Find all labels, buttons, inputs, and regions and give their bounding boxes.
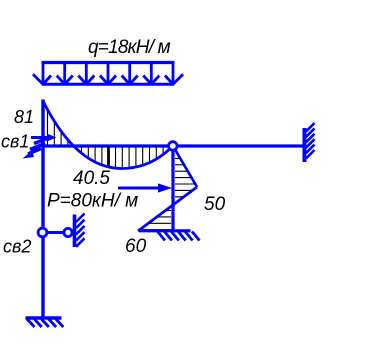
sv2 link bar: [46, 231, 64, 234]
column moment hatching (bottom triangle): [141, 211, 172, 230]
svg-text:81: 81: [14, 107, 34, 127]
svg-text:40.5: 40.5: [73, 168, 110, 189]
svg-text:св2: св2: [3, 237, 31, 257]
middle column member: [171, 146, 174, 230]
right wall support: [305, 123, 315, 162]
middle support base: [139, 231, 200, 241]
moment diagram hatching on beam: [48, 111, 164, 168]
svg-text:P=80кН/ м: P=80кН/ м: [47, 191, 138, 212]
ordinate 40.5 tick: [107, 147, 110, 166]
beam member (horizontal): [43, 144, 306, 147]
force P arrow: [118, 183, 172, 192]
hinge on left column: [38, 228, 47, 237]
distributed load q: top chord: [42, 61, 175, 64]
svg-text:q=18кН/ м: q=18кН/ м: [88, 37, 171, 58]
moment parabola on beam: [43, 101, 172, 169]
sv2 wall support: [75, 214, 85, 248]
bottom-left fixed support: [26, 318, 64, 327]
distributed load q: bottom chord: [42, 83, 174, 86]
left column member: [41, 100, 44, 318]
sv1 support: hatches: [28, 139, 47, 155]
sv1 support: down-left arrowhead: [23, 151, 35, 159]
column moment hatching (top triangle): [175, 158, 194, 196]
hinge node at beam/column junction: [169, 142, 178, 151]
svg-text:св1: св1: [1, 132, 29, 152]
sv1 support: right arrow: [31, 134, 57, 142]
column moment diagram outline: [138, 146, 197, 231]
distributed load q: arrows: [33, 64, 183, 84]
svg-text:50: 50: [204, 194, 226, 215]
hinge at wall link: [64, 228, 72, 236]
svg-text:60: 60: [125, 236, 147, 257]
